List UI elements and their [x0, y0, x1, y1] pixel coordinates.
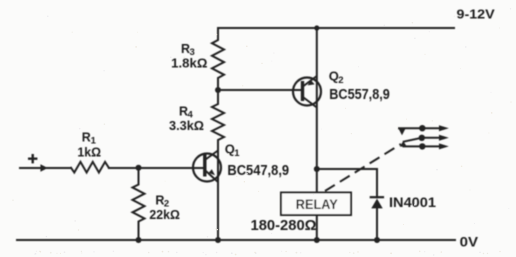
svg-text:2: 2: [338, 75, 343, 86]
svg-text:IN4001: IN4001: [389, 194, 436, 210]
svg-text:9-12V: 9-12V: [457, 7, 496, 22]
svg-text:1.8kΩ: 1.8kΩ: [171, 55, 207, 70]
svg-text:R: R: [82, 131, 91, 145]
svg-text:1kΩ: 1kΩ: [77, 146, 101, 160]
svg-text:0V: 0V: [460, 233, 479, 249]
svg-text:180-280Ω: 180-280Ω: [251, 218, 317, 234]
svg-text:RELAY: RELAY: [296, 196, 339, 212]
svg-text:1: 1: [234, 148, 240, 159]
svg-text:3.3kΩ: 3.3kΩ: [169, 118, 204, 133]
svg-text:22kΩ: 22kΩ: [149, 207, 180, 222]
